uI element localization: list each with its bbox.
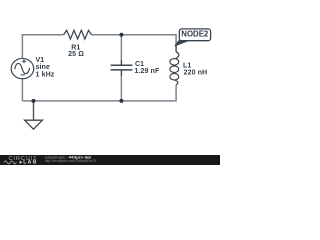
resistor R1 [64,30,92,39]
inductor L1 top lead [175,46,177,53]
capacitor C1 plates [111,65,133,70]
capacitor C1 top lead [120,60,122,65]
svg-text:V1: V1 [36,57,45,64]
svg-text:NODE2: NODE2 [181,30,209,39]
footer bar [0,155,220,165]
svg-text:http://circuitlab.com/c/7e8uty: http://circuitlab.com/c/7e8uty5t3m73 [45,159,97,163]
ground symbol [25,120,43,129]
V1 plus sign [22,59,26,63]
svg-text:sine: sine [36,64,51,71]
wire capacitor branch top [120,35,122,60]
voltage source V1 circle [11,58,34,78]
wire capacitor branch bottom [120,76,122,101]
svg-text:25 Ω: 25 Ω [68,51,84,58]
V1 sine wave glyph [15,63,30,73]
node NODE2 box [179,29,210,41]
wire left branch bottom [21,79,23,101]
svg-text:220 nH: 220 nH [184,69,208,76]
footer logo play triangle [20,161,23,164]
junction dot ground [32,99,36,103]
wire top rail right segment [92,35,177,46]
capacitor C1 bottom lead [120,70,122,76]
ground stub wire [33,101,35,120]
V1 minus sign [21,74,25,76]
junction dot capacitor top [119,33,123,37]
junction dot capacitor bottom [119,99,123,103]
svg-text:1.29 nF: 1.29 nF [134,68,160,75]
wire top rail left segment [22,35,63,59]
wire bottom rail [22,85,176,101]
svg-text:LAB: LAB [23,160,37,165]
svg-text:1 kHz: 1 kHz [36,72,55,79]
NODE2 callout tail [175,40,189,46]
inductor L1 coil [170,52,179,85]
footer logo waveform [4,161,16,164]
